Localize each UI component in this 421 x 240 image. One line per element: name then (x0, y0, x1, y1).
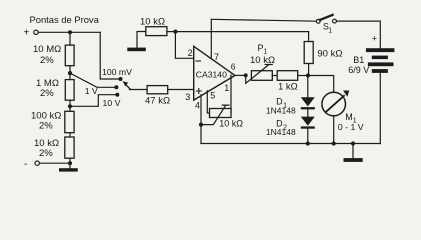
wire pin5 lead (207, 91, 209, 113)
wire 10V tap (70, 95, 115, 107)
svg-text:2%: 2% (40, 88, 54, 99)
wire feedback top to 90k (175, 31, 308, 33)
plus probe terminal (24, 28, 39, 39)
wire pin4 (200, 95, 202, 144)
svg-text:0 - 1 V: 0 - 1 V (338, 122, 364, 132)
svg-text:6/9 V: 6/9 V (348, 65, 369, 75)
potentiometer P1 10 kOhm (246, 43, 275, 83)
wire D2 to rail (307, 129, 309, 144)
wire 10k right lead (167, 31, 176, 33)
wire 10k left lead to ground (137, 32, 146, 48)
svg-text:CA3140: CA3140 (196, 69, 227, 79)
wire pin7 supply (210, 19, 212, 58)
wire P1 to 1k (272, 75, 277, 77)
wire bottom rail (201, 143, 380, 145)
switch contact 1V (114, 85, 118, 89)
svg-text:47 kΩ: 47 kΩ (145, 96, 170, 107)
svg-text:10 V: 10 V (103, 98, 121, 108)
svg-text:1 V: 1 V (85, 86, 98, 96)
svg-text:10 kΩ: 10 kΩ (250, 55, 275, 66)
node output (244, 73, 248, 77)
svg-text:7: 7 (214, 52, 219, 62)
minus probe terminal (24, 159, 39, 170)
svg-text:+: + (24, 28, 30, 39)
svg-text:Pontas de Prova: Pontas de Prova (30, 14, 100, 25)
ground left (59, 163, 78, 171)
label 1 V (85, 86, 98, 96)
node divider junction 10V (68, 104, 72, 108)
switch contact 100mV (119, 77, 123, 81)
node meter feed (306, 73, 310, 77)
resistor 100 kOhm (31, 111, 74, 138)
node inverting input (173, 30, 177, 34)
wire 1V tap (70, 73, 114, 87)
node meter rail (332, 141, 336, 145)
wire switch pole to 47k (130, 89, 148, 91)
svg-text:2%: 2% (39, 121, 53, 132)
label 100 mV (102, 67, 132, 77)
wire top-left horizontal (38, 31, 100, 33)
ground feedback resistor (127, 48, 146, 52)
pin label 3 (185, 92, 190, 102)
label Pontas de Prova (30, 14, 100, 25)
svg-text:B1: B1 (353, 55, 364, 65)
svg-text:4: 4 (195, 101, 200, 111)
op-amp U1 CA3140 (194, 46, 235, 100)
pin label 7 (214, 52, 219, 62)
switch S1 (316, 15, 336, 34)
wire S1 to battery (337, 21, 381, 48)
svg-text:2: 2 (188, 48, 193, 58)
svg-text:10 MΩ: 10 MΩ (33, 44, 61, 55)
resistor 47 kOhm (145, 86, 170, 107)
wire node to meter (308, 76, 334, 93)
wire 100mV tap (100, 32, 119, 79)
label 10 V (103, 98, 121, 108)
svg-text:100 mV: 100 mV (102, 67, 132, 77)
svg-text:1N4148: 1N4148 (266, 127, 296, 137)
wire battery to bottom rail (379, 73, 381, 144)
wire top rail (211, 19, 316, 21)
resistor 90 kOhm (304, 32, 342, 76)
svg-text:+: + (372, 34, 377, 44)
svg-text:2%: 2% (39, 148, 53, 159)
wire meter to rail (333, 116, 335, 144)
meter M1 (322, 91, 364, 132)
node D2 rail (306, 141, 310, 145)
diode D2 1N4148 (266, 117, 315, 138)
pin label 2 (188, 48, 193, 58)
pin label 5 (210, 91, 215, 101)
switch wiper range selector (123, 81, 131, 89)
wire 47k to pin3 (168, 89, 194, 91)
svg-text:1N4148: 1N4148 (266, 105, 296, 115)
trimpot 10 kOhm offset null (201, 105, 243, 129)
wire pin2 (175, 32, 193, 59)
svg-text:6: 6 (231, 62, 236, 72)
wire minus terminal (39, 162, 70, 164)
svg-text:2%: 2% (40, 55, 54, 66)
wire pin1 lead (230, 75, 232, 113)
wire output pin6 (235, 74, 246, 76)
node divider junction 1V (68, 71, 72, 75)
svg-text:1: 1 (328, 27, 332, 34)
node top divider junction (68, 30, 72, 34)
pin label 6 (231, 62, 236, 72)
svg-text:1: 1 (224, 83, 229, 93)
wire D1 to D2 (307, 109, 309, 116)
resistor 10 MOhm (33, 34, 74, 80)
svg-text:10 kΩ: 10 kΩ (219, 119, 243, 129)
svg-text:M: M (345, 112, 353, 122)
svg-text:3: 3 (185, 92, 190, 102)
node ground rail (351, 141, 355, 145)
resistor 10 kOhm feedback to ground (140, 17, 167, 36)
resistor 1 kOhm (277, 71, 298, 93)
svg-text:5: 5 (210, 91, 215, 101)
node divider bottom (68, 161, 72, 165)
svg-text:-: - (24, 159, 27, 170)
diode D1 1N4148 (266, 97, 315, 116)
resistor 1 MOhm (36, 78, 74, 111)
ground right (344, 144, 363, 162)
svg-text:1 kΩ: 1 kΩ (278, 82, 298, 93)
switch contact 10V (115, 93, 119, 97)
pin label 4 (195, 101, 200, 111)
resistor 10 kOhm divider (34, 137, 74, 163)
svg-text:10 kΩ: 10 kΩ (140, 17, 165, 28)
wire 1k to node (298, 75, 308, 77)
svg-text:90 kΩ: 90 kΩ (317, 49, 342, 60)
pin label 1 (224, 83, 229, 93)
node pin4 wiper junction (199, 123, 203, 127)
battery B1 (348, 34, 394, 76)
wire node to diodes (307, 76, 309, 98)
